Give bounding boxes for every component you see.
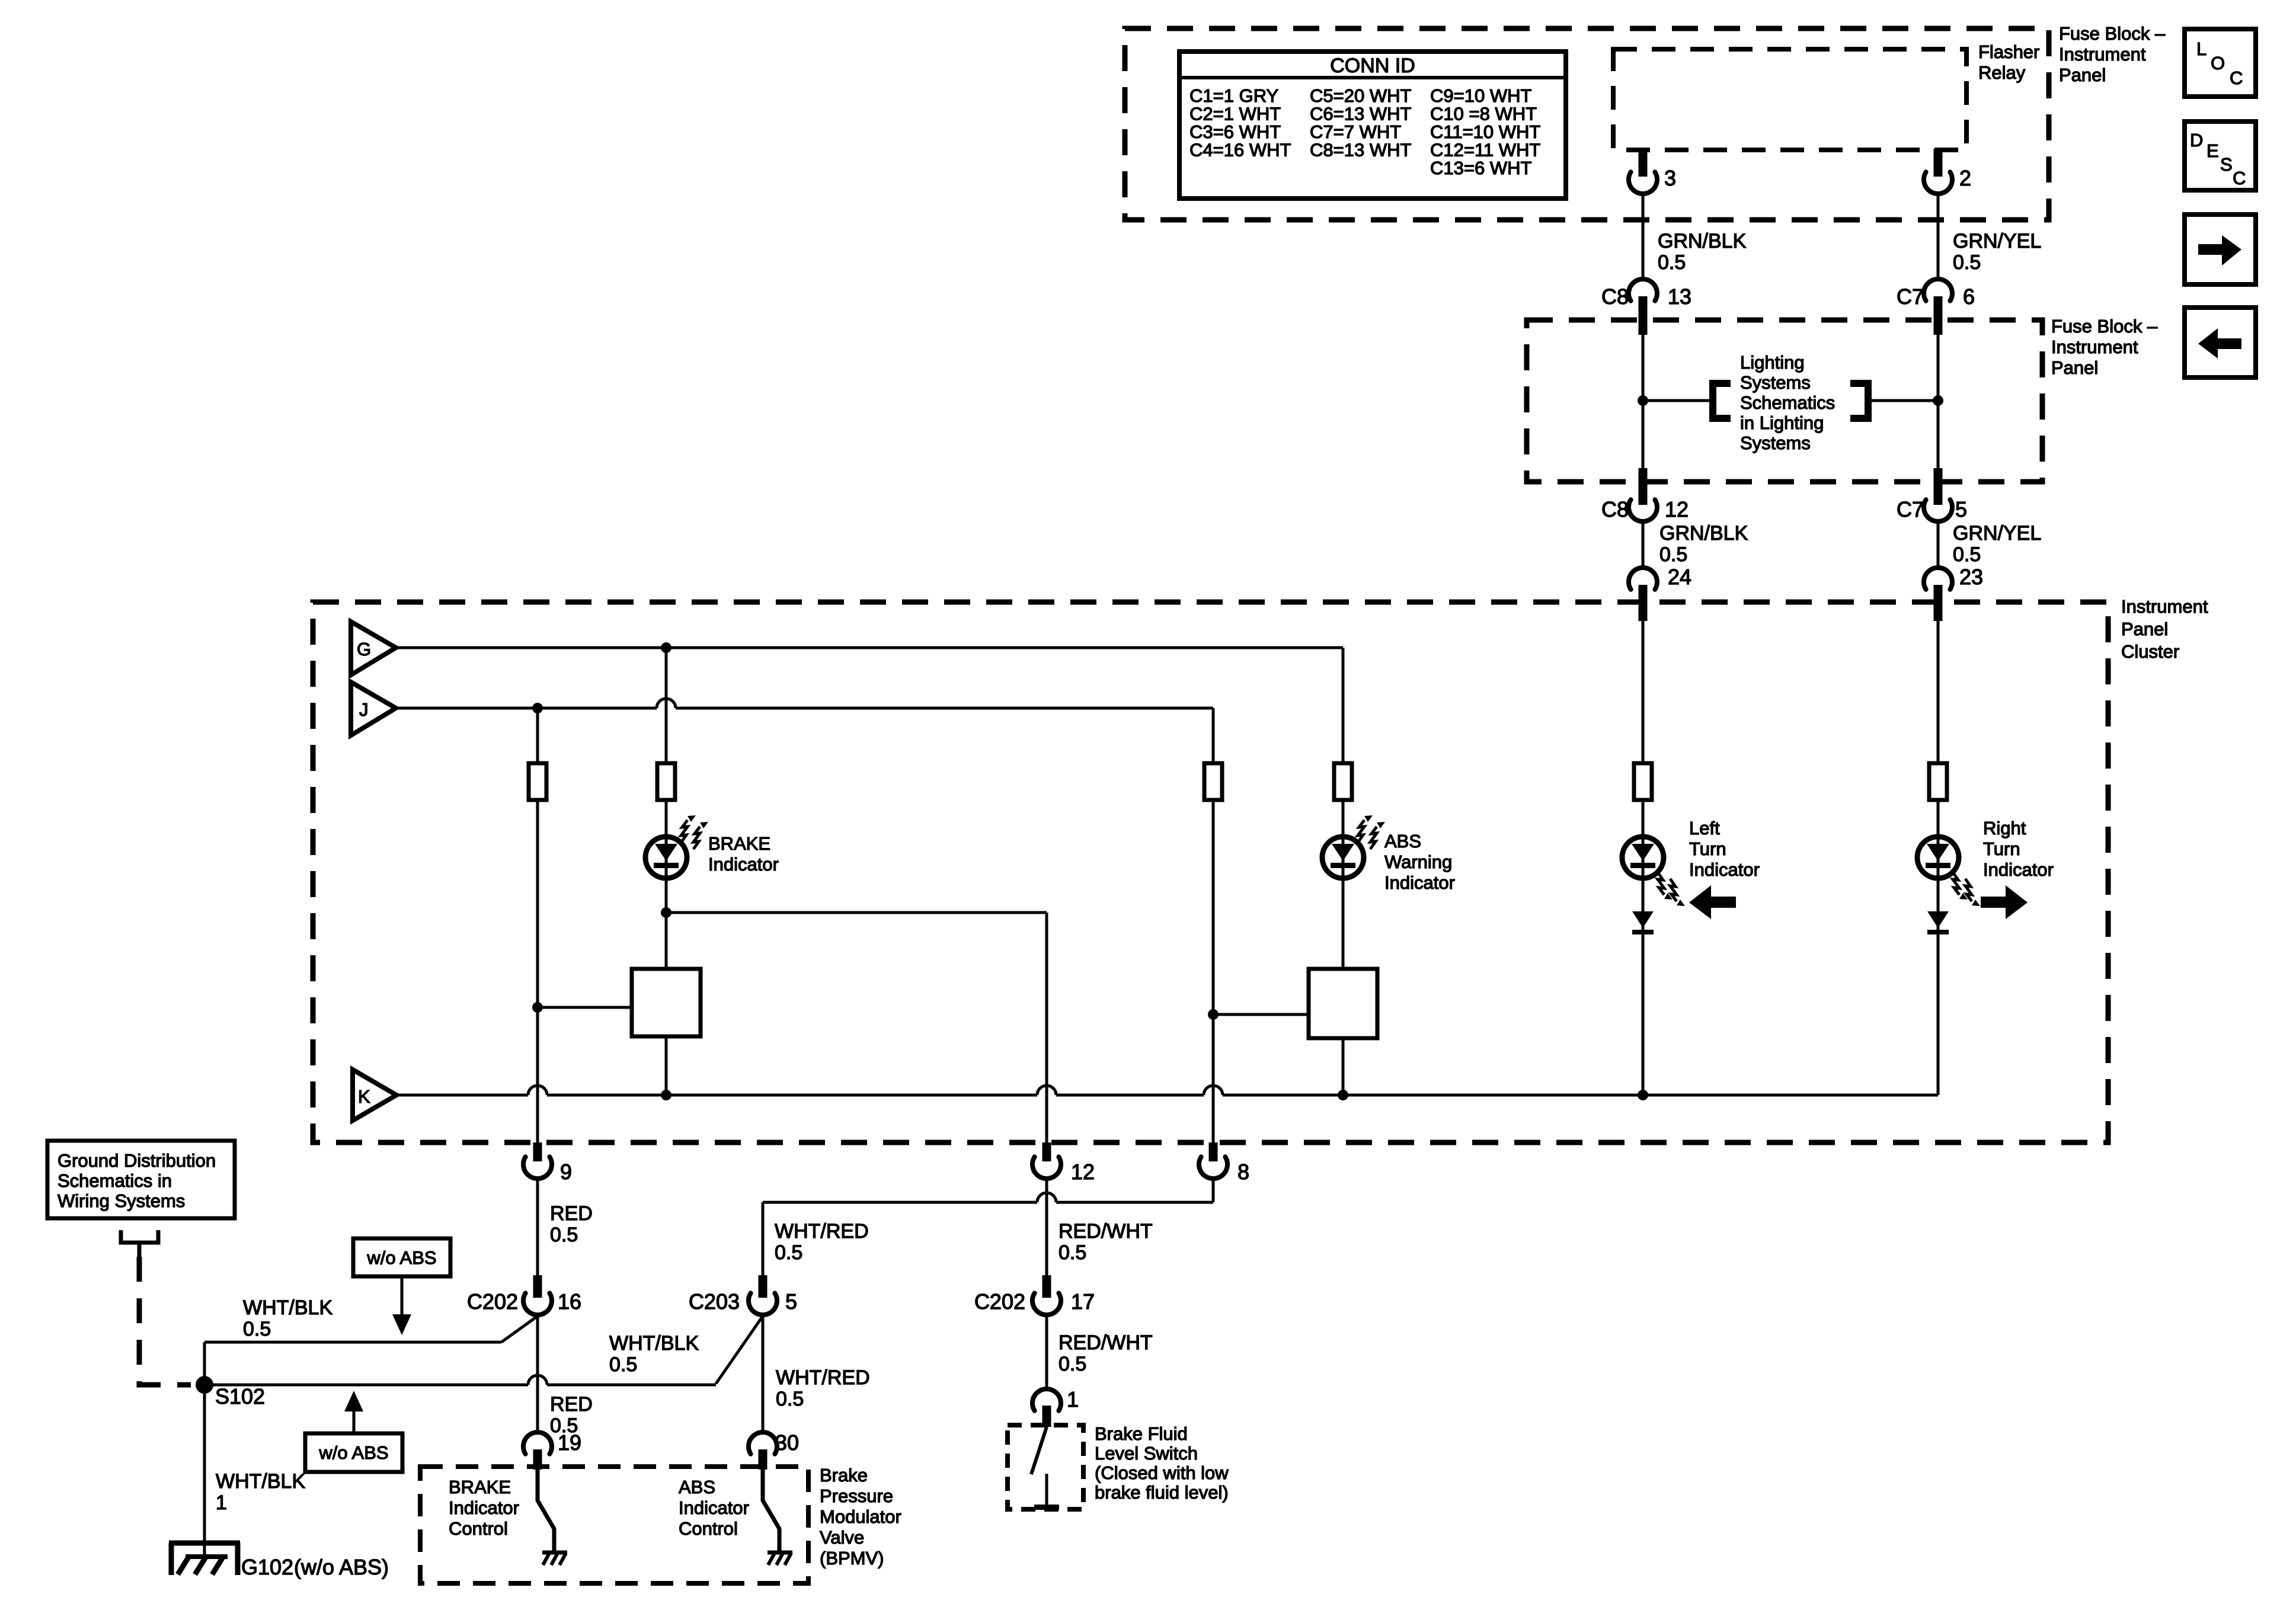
svg-text:C8: C8 <box>1601 497 1629 521</box>
wire abs box to K bus <box>1342 1038 1345 1095</box>
junction wire9 to control box <box>532 1002 543 1013</box>
wire to brake control box <box>538 1006 632 1009</box>
left turn indicator branch <box>1642 616 1645 1095</box>
svg-text:BRAKE: BRAKE <box>449 1477 511 1497</box>
svg-text:ABS: ABS <box>679 1477 715 1497</box>
wire WHT/BLK diagonal from C202-16 <box>501 1316 538 1342</box>
wire inside fuse block right <box>1937 332 1940 474</box>
svg-text:RED: RED <box>550 1393 593 1416</box>
svg-text:GRN/BLK: GRN/BLK <box>1659 522 1748 545</box>
svg-text:L: L <box>2196 39 2207 59</box>
svg-text:O: O <box>2211 53 2225 73</box>
wire RED pin9 to C202-16 <box>536 1179 539 1275</box>
w/o ABS arrow down <box>401 1276 404 1317</box>
svg-text:C7: C7 <box>1897 284 1924 309</box>
svg-text:C8: C8 <box>1601 284 1629 309</box>
svg-text:RED: RED <box>550 1202 593 1225</box>
svg-text:Panel: Panel <box>2051 357 2098 378</box>
wire WHT/RED down to C203-5 <box>762 1202 765 1275</box>
svg-text:1: 1 <box>1067 1387 1079 1411</box>
svg-text:RED/WHT: RED/WHT <box>1059 1331 1153 1354</box>
diode below left turn LED <box>1632 911 1654 928</box>
wire to abs control box <box>1213 1013 1309 1016</box>
LED BRAKE indicator <box>645 837 687 878</box>
wire G end to ABS indicator <box>1342 648 1345 969</box>
wire RED/WHT C202-17 to pin 1 <box>1045 1315 1048 1389</box>
svg-text:WHT/RED: WHT/RED <box>775 1220 869 1243</box>
wire WHT/BLK diagonal to C203-5 <box>716 1316 763 1384</box>
node G (triangle connector) <box>351 622 396 675</box>
svg-text:Indicator: Indicator <box>1983 859 2054 880</box>
ground (brake indicator control) <box>542 1551 567 1555</box>
svg-text:S102: S102 <box>215 1384 265 1409</box>
svg-text:13: 13 <box>1668 284 1691 309</box>
LOC icon box <box>2185 29 2256 97</box>
resistor on brake indicator wire <box>657 763 675 800</box>
svg-text:Right: Right <box>1983 818 2026 838</box>
svg-text:30: 30 <box>775 1430 799 1455</box>
brake fluid level switch pin 1 <box>1032 1389 1061 1411</box>
svg-text:C13=6 WHT: C13=6 WHT <box>1430 158 1531 178</box>
svg-text:0.5: 0.5 <box>776 1388 804 1410</box>
svg-text:Instrument: Instrument <box>2121 596 2208 617</box>
svg-text:24: 24 <box>1668 565 1691 589</box>
svg-text:Instrument: Instrument <box>2051 337 2138 357</box>
svg-text:Ground Distribution: Ground Distribution <box>57 1150 216 1171</box>
svg-text:CONN ID: CONN ID <box>1330 55 1415 77</box>
svg-text:(BPMV): (BPMV) <box>820 1548 884 1569</box>
cluster pin 24 <box>1629 568 1657 590</box>
svg-text:0.5: 0.5 <box>1658 251 1686 274</box>
svg-text:Turn: Turn <box>1689 838 1726 859</box>
svg-text:Instrument: Instrument <box>2059 44 2146 65</box>
svg-text:D: D <box>2190 130 2203 151</box>
svg-text:17: 17 <box>1071 1289 1095 1314</box>
flasher relay (dashed box) <box>1613 49 1966 150</box>
cluster pin 8 <box>1209 1142 1218 1161</box>
svg-text:0.5: 0.5 <box>1659 543 1687 566</box>
svg-text:brake fluid level): brake fluid level) <box>1095 1482 1229 1503</box>
svg-text:(Closed with low: (Closed with low <box>1095 1462 1229 1483</box>
svg-text:RED/WHT: RED/WHT <box>1059 1220 1153 1243</box>
svg-text:5: 5 <box>1955 497 1967 521</box>
svg-text:3: 3 <box>1664 166 1676 190</box>
diode below right turn LED <box>1927 911 1949 928</box>
svg-text:5: 5 <box>785 1289 797 1314</box>
svg-text:BRAKE: BRAKE <box>708 833 770 854</box>
brake indicator control switch element <box>538 1468 554 1553</box>
svg-text:C8=13 WHT: C8=13 WHT <box>1310 140 1411 161</box>
wire from pin 8 down and across <box>1212 1179 1215 1202</box>
svg-text:23: 23 <box>1959 565 1983 589</box>
junction J to wire 9 <box>532 703 543 713</box>
wire brake junction to pin 12 drop <box>666 911 1047 914</box>
fuse block instrument panel (upper dashed box) <box>1125 28 2049 220</box>
off-page bracket <box>121 1230 158 1243</box>
wire J bus (hop over brake wire) <box>396 699 1213 708</box>
resistor on left turn wire <box>1634 763 1652 800</box>
resistor on right turn wire <box>1929 763 1947 800</box>
svg-text:Wiring Systems: Wiring Systems <box>57 1190 185 1211</box>
svg-text:G: G <box>357 639 371 660</box>
dashed link to S102 <box>139 1257 191 1385</box>
junction G to brake branch <box>661 642 671 653</box>
svg-text:Turn: Turn <box>1983 838 2020 859</box>
w/o ABS tag (upper) <box>353 1238 450 1276</box>
fuse block instrument panel (lower dashed box) <box>1527 320 2042 482</box>
svg-text:C4=16 WHT: C4=16 WHT <box>1189 140 1291 161</box>
svg-text:J: J <box>359 699 369 720</box>
connector C202 pin 16 <box>533 1275 542 1298</box>
wire GRN/BLK C8-12 to pin 24 <box>1642 521 1645 568</box>
svg-text:E: E <box>2207 140 2219 161</box>
wire to left bracket <box>1643 399 1710 402</box>
abs indicator control switch element <box>763 1468 779 1553</box>
svg-text:Panel: Panel <box>2121 619 2168 639</box>
wire RED C202-16 to pin 19 <box>536 1315 539 1432</box>
svg-text:Left: Left <box>1689 818 1720 838</box>
wire RED/WHT pin12 to C202-17 <box>1045 1179 1048 1275</box>
svg-text:19: 19 <box>558 1430 581 1455</box>
svg-text:w/o ABS: w/o ABS <box>318 1442 388 1463</box>
svg-text:1: 1 <box>216 1491 227 1514</box>
ground distribution schematics box <box>47 1141 235 1218</box>
cluster pin 9 <box>533 1142 542 1161</box>
svg-text:Fuse Block –: Fuse Block – <box>2059 23 2166 44</box>
svg-text:Indicator: Indicator <box>1689 859 1760 880</box>
CONN ID table <box>1179 52 1566 199</box>
resistor on wire 9 <box>529 763 546 800</box>
svg-text:WHT/BLK: WHT/BLK <box>216 1470 305 1493</box>
DESC icon box <box>2185 121 2256 190</box>
svg-text:Control: Control <box>679 1518 738 1539</box>
wire control box to K bus <box>665 1036 668 1095</box>
wire from J to pin 9 <box>536 708 539 1142</box>
svg-text:6: 6 <box>1963 284 1975 309</box>
wire WHT/BLK horizontal <box>204 1341 501 1344</box>
svg-text:0.5: 0.5 <box>550 1224 578 1246</box>
svg-text:Indicator: Indicator <box>708 854 779 875</box>
svg-text:0.5: 0.5 <box>1059 1241 1086 1264</box>
wire WHT/BLK drop to S102 <box>203 1342 206 1385</box>
wire GRN/BLK pin3 to C8-13 <box>1642 194 1645 279</box>
cluster pin 12 <box>1043 1142 1051 1161</box>
svg-text:0.5: 0.5 <box>1953 543 1981 566</box>
BPMV pin 30 <box>749 1432 777 1454</box>
LED ABS warning indicator <box>1322 837 1364 878</box>
svg-text:GRN/YEL: GRN/YEL <box>1953 230 2041 252</box>
svg-text:Cluster: Cluster <box>2121 641 2179 662</box>
wire K bus <box>396 1086 1938 1095</box>
svg-text:Pressure: Pressure <box>820 1486 893 1506</box>
wire from J to pin 8 <box>1212 708 1215 1142</box>
wire inside fuse block left <box>1642 332 1645 474</box>
wire WHT/RED horizontal from pin 8 <box>763 1193 1213 1202</box>
flasher relay pin 2 <box>1934 149 1943 177</box>
resistor on wire 8 <box>1204 763 1222 800</box>
svg-text:Brake: Brake <box>820 1465 868 1486</box>
svg-text:Modulator: Modulator <box>820 1506 901 1527</box>
svg-text:Indicator: Indicator <box>679 1497 749 1518</box>
junction on K bus at 1124 <box>661 1090 671 1100</box>
junction on K bus at 2772 <box>1638 1090 1648 1100</box>
svg-text:Brake Fluid: Brake Fluid <box>1095 1423 1188 1444</box>
svg-text:C202: C202 <box>467 1289 518 1314</box>
svg-text:Schematics in: Schematics in <box>57 1170 172 1191</box>
lighting systems bracket right <box>1850 383 1868 418</box>
junction brake wire to pin12 branch <box>661 907 671 918</box>
svg-text:WHT/BLK: WHT/BLK <box>243 1297 332 1319</box>
svg-text:Lighting: Lighting <box>1740 352 1805 373</box>
svg-text:C203: C203 <box>689 1289 740 1314</box>
left arrow icon box <box>2185 308 2256 377</box>
svg-text:Systems: Systems <box>1740 433 1811 453</box>
svg-text:Schematics: Schematics <box>1740 392 1835 413</box>
LED right turn indicator <box>1917 837 1959 878</box>
svg-text:(w/o ABS): (w/o ABS) <box>294 1555 389 1579</box>
resistor on ABS indicator wire <box>1334 763 1352 800</box>
svg-text:GRN/YEL: GRN/YEL <box>1953 522 2041 545</box>
ground G102 <box>169 1543 240 1575</box>
svg-text:12: 12 <box>1071 1160 1095 1184</box>
w/o ABS tag (lower) <box>305 1433 402 1472</box>
svg-text:Panel: Panel <box>2059 65 2106 85</box>
wire WHT/BLK S102 horizontal run <box>204 1375 716 1385</box>
junction on K bus at 2266 <box>1338 1090 1348 1100</box>
lighting systems bracket left <box>1713 383 1731 418</box>
svg-text:WHT/RED: WHT/RED <box>776 1366 870 1389</box>
LED left turn indicator <box>1622 837 1664 878</box>
ground (abs indicator control) <box>768 1551 792 1555</box>
svg-text:0.5: 0.5 <box>1059 1353 1086 1375</box>
svg-text:8: 8 <box>1237 1160 1249 1184</box>
BPMV dashed box <box>420 1467 808 1583</box>
splice S102 <box>196 1376 213 1394</box>
w/o ABS arrow up <box>353 1410 356 1433</box>
svg-text:Warning: Warning <box>1384 852 1452 872</box>
wire drop to pin 12 <box>1045 913 1048 1142</box>
wire G bus <box>396 646 1343 649</box>
svg-text:Relay: Relay <box>1978 62 2026 83</box>
svg-text:0.5: 0.5 <box>1953 251 1981 274</box>
svg-text:ABS: ABS <box>1384 831 1421 852</box>
brake indicator control box <box>632 969 701 1036</box>
svg-text:12: 12 <box>1665 497 1689 521</box>
svg-text:Flasher: Flasher <box>1978 41 2039 62</box>
junction wire8 to abs control box <box>1208 1009 1219 1020</box>
svg-text:Control: Control <box>449 1518 508 1539</box>
abs indicator control box <box>1309 969 1377 1038</box>
node J (triangle connector) <box>351 682 396 735</box>
wire GRN/YEL pin2 to C7-6 <box>1937 194 1940 279</box>
svg-text:S: S <box>2220 154 2233 175</box>
svg-text:GRN/BLK: GRN/BLK <box>1658 230 1747 252</box>
svg-text:C: C <box>2230 68 2243 88</box>
svg-text:C202: C202 <box>974 1289 1025 1314</box>
svg-text:G102: G102 <box>241 1555 293 1579</box>
svg-text:9: 9 <box>560 1160 572 1184</box>
node K (triangle connector) <box>353 1070 396 1121</box>
svg-text:C7: C7 <box>1897 497 1924 521</box>
connector C8 pin 12 <box>1639 468 1648 505</box>
svg-text:C: C <box>2233 168 2246 188</box>
connector C7 pin 5 <box>1934 468 1943 505</box>
right turn indicator branch <box>1937 616 1940 1095</box>
connector C202 pin 17 <box>1043 1275 1051 1298</box>
wire WHT/BLK 1 to ground <box>203 1385 206 1557</box>
svg-text:Indicator: Indicator <box>1384 872 1455 893</box>
instrument panel cluster (dashed box) <box>313 602 2108 1142</box>
junction to lighting systems right <box>1933 395 1943 406</box>
wire G branch to brake indicator <box>665 648 668 969</box>
svg-text:2: 2 <box>1959 166 1971 190</box>
BPMV pin 19 <box>523 1432 552 1454</box>
junction to lighting systems left <box>1638 395 1648 406</box>
left direction arrow <box>1689 885 1736 919</box>
connector C203 pin 5 <box>759 1275 768 1298</box>
brake fluid level switch contact <box>1031 1427 1047 1474</box>
flasher relay pin 3 <box>1639 149 1648 177</box>
svg-text:Valve: Valve <box>820 1527 864 1548</box>
svg-text:Systems: Systems <box>1740 372 1811 393</box>
svg-text:16: 16 <box>558 1289 581 1314</box>
svg-text:w/o ABS: w/o ABS <box>366 1247 436 1268</box>
right direction arrow <box>1981 885 2028 919</box>
svg-text:0.5: 0.5 <box>775 1241 802 1264</box>
cluster pin 23 <box>1924 568 1952 590</box>
svg-text:in Lighting: in Lighting <box>1740 412 1824 433</box>
svg-text:WHT/BLK: WHT/BLK <box>609 1332 699 1355</box>
svg-text:0.5: 0.5 <box>609 1353 637 1376</box>
svg-text:0.5: 0.5 <box>243 1318 271 1340</box>
brake fluid level switch (dashed box) <box>1008 1425 1083 1509</box>
svg-text:Fuse Block –: Fuse Block – <box>2051 316 2158 337</box>
wire WHT/RED C203-5 to pin 30 <box>762 1315 765 1432</box>
wire from right bracket <box>1870 399 1938 402</box>
wire GRN/YEL C7-5 to pin 23 <box>1937 521 1940 568</box>
svg-text:Indicator: Indicator <box>449 1497 519 1518</box>
svg-text:K: K <box>358 1086 370 1107</box>
right arrow icon box <box>2185 215 2256 284</box>
svg-text:Level Switch: Level Switch <box>1095 1443 1198 1464</box>
